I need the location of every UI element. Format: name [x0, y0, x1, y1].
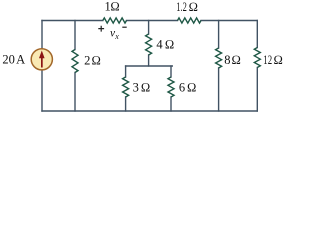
svg-text:Ω: Ω [273, 53, 283, 67]
svg-text:Ω: Ω [110, 0, 120, 14]
svg-text:Ω: Ω [91, 53, 101, 67]
svg-text:12: 12 [263, 53, 272, 67]
svg-text:6: 6 [179, 80, 185, 94]
svg-text:Ω: Ω [165, 38, 175, 52]
svg-text:3: 3 [133, 80, 139, 94]
svg-text:1.2: 1.2 [176, 0, 187, 14]
svg-text:Ω: Ω [231, 53, 241, 67]
svg-text:x: x [114, 32, 119, 41]
svg-text:4: 4 [156, 38, 163, 52]
svg-text:2: 2 [84, 53, 90, 67]
svg-text:8: 8 [224, 53, 230, 67]
svg-text:Ω: Ω [187, 80, 197, 94]
svg-text:A: A [16, 52, 25, 66]
svg-text:Ω: Ω [188, 0, 198, 14]
svg-text:Ω: Ω [141, 80, 151, 94]
svg-text:20: 20 [2, 52, 15, 66]
